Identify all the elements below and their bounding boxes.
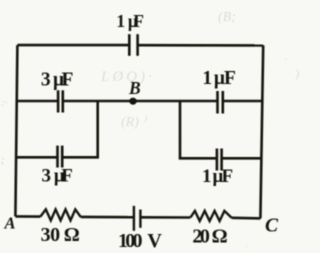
label: 1 uF (top capacitor value) bbox=[116, 11, 144, 31]
label: 3 uF (row3 left capacitor value) bbox=[41, 166, 72, 187]
label: 1 uF (row3 right capacitor value) bbox=[202, 166, 233, 187]
svg-text:LØQ)·: LØQ)· bbox=[100, 69, 155, 85]
svg-text:30: 30 bbox=[41, 224, 61, 246]
wire: left outer vertical (node A up to top edge) bbox=[15, 45, 17, 216]
wire: row3 left-to-inner-vertical segment bbox=[62, 156, 99, 159]
svg-text:·: · bbox=[245, 241, 248, 253]
svg-text:): ) bbox=[294, 66, 299, 81]
svg-text:C: C bbox=[265, 215, 279, 236]
svg-text:1: 1 bbox=[202, 68, 212, 89]
wire: row3 left segment (left edge to 3uF) bbox=[16, 156, 57, 159]
battery 100V: short plate bbox=[139, 210, 141, 228]
svg-text:Ω: Ω bbox=[64, 224, 80, 246]
svg-text:100: 100 bbox=[118, 230, 143, 252]
svg-text:μF: μF bbox=[53, 70, 73, 91]
svg-text:3: 3 bbox=[41, 166, 51, 187]
label: 100 V (battery value) bbox=[118, 230, 162, 252]
svg-text:B: B bbox=[128, 78, 141, 98]
wire: top edge left segment (A-side to top capacitor) bbox=[17, 44, 129, 47]
svg-text:A: A bbox=[3, 214, 15, 233]
svg-text:20: 20 bbox=[192, 226, 210, 248]
node B: junction dot bbox=[129, 98, 136, 105]
svg-text:Ω: Ω bbox=[212, 226, 228, 248]
capacitor 1uF (row3 right): plates bbox=[217, 149, 222, 171]
label: 30 ohm (resistor value) bbox=[41, 224, 80, 246]
capacitor 1uF (row2 right): plates bbox=[218, 91, 223, 114]
svg-text:.: . bbox=[285, 52, 288, 63]
wire: row3 right-to-right-edge segment bbox=[222, 157, 261, 160]
svg-text:3: 3 bbox=[41, 70, 51, 91]
wire: top edge right segment (top capacitor to C-side) bbox=[138, 44, 264, 47]
wire: right outer vertical (node C up to top edge) bbox=[260, 45, 263, 218]
battery 100V: long plate bbox=[133, 206, 135, 231]
svg-text:1: 1 bbox=[202, 166, 212, 187]
svg-text:μF: μF bbox=[54, 166, 73, 187]
svg-text:V: V bbox=[147, 230, 162, 252]
wire: bottom edge 30-ohm to battery bbox=[81, 216, 134, 219]
capacitor 1uF (top): plates bbox=[129, 34, 137, 56]
svg-text:(R) ⁾: (R) ⁾ bbox=[121, 115, 147, 130]
label: 3 uF (row2 left capacitor value) bbox=[41, 70, 74, 91]
svg-text:(B;: (B; bbox=[218, 10, 236, 25]
wire: row2 right segment (1uF to right edge) bbox=[223, 100, 262, 103]
resistor 20 ohm: zigzag bbox=[190, 211, 231, 221]
wire: row2 left segment (left edge to 3uF) bbox=[17, 100, 58, 103]
capacitor 3uF (row3 left): plates bbox=[58, 146, 63, 168]
wire: bottom edge battery to 20-ohm resistor bbox=[140, 216, 190, 219]
capacitor 3uF (row2 left): plates bbox=[58, 90, 63, 112]
svg-text:;: ; bbox=[1, 154, 5, 166]
wire: inner left vertical (row2 junction down to row3) bbox=[96, 101, 99, 158]
resistor 30 ohm: zigzag bbox=[40, 209, 80, 220]
wire: row3 right segment (inner vertical to 1uF) bbox=[179, 157, 217, 160]
label: 20 ohm (resistor value) bbox=[192, 226, 227, 248]
wire: row2 middle segment (3uF through node B to 1uF) bbox=[63, 100, 218, 103]
label: 1 uF (row2 right capacitor value) bbox=[202, 68, 235, 89]
svg-text:μF: μF bbox=[214, 68, 236, 89]
svg-text:μF: μF bbox=[128, 11, 144, 31]
svg-text:μF: μF bbox=[213, 166, 234, 187]
wire: inner right vertical (row2 junction down to row3) bbox=[179, 101, 182, 159]
wire: bottom edge A to 30-ohm resistor bbox=[15, 215, 40, 218]
wire: bottom edge 20-ohm to C bbox=[232, 217, 261, 220]
svg-text:1: 1 bbox=[116, 11, 125, 31]
svg-text::·: :· bbox=[1, 97, 8, 109]
